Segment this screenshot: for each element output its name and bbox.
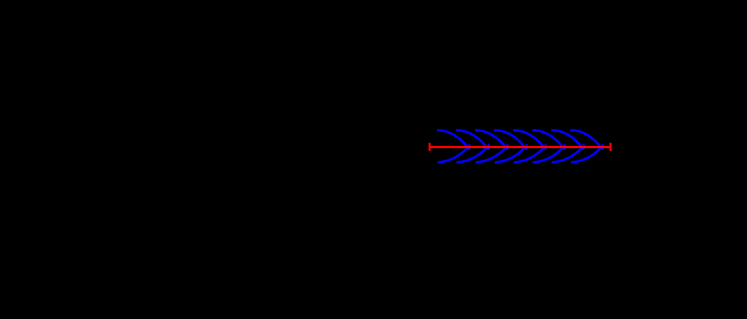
wavefront chevron W8 [570, 130, 603, 162]
wavefront chevron W5 [513, 130, 546, 162]
wavefront chevron W7 [551, 130, 584, 162]
scale bar left end tick [429, 143, 431, 151]
wavefront chevron W2 [456, 130, 489, 162]
wavefront chevron W3 [475, 130, 508, 162]
wavefront chevron W1 [437, 130, 470, 162]
measurement line (red scale bar) [430, 146, 611, 148]
scale bar right end tick [610, 143, 612, 151]
wavefront chevron W6 [532, 130, 565, 162]
wavefront chevron W4 [494, 130, 527, 162]
